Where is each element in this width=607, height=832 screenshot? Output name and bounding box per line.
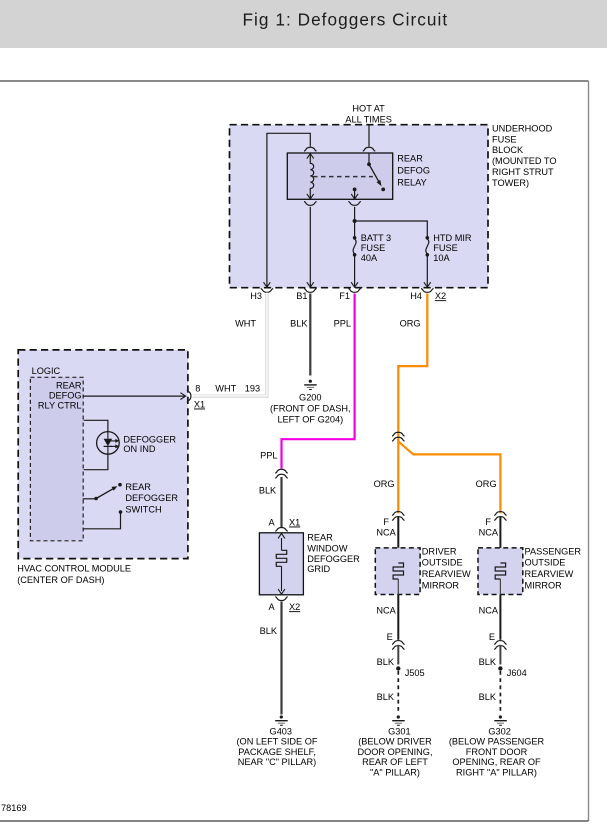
svg-text:G200: G200 xyxy=(299,393,321,403)
driver mirror box xyxy=(375,548,420,595)
label F NCA driver xyxy=(376,517,396,538)
svg-text:NCA: NCA xyxy=(479,606,499,616)
arrow into grid xyxy=(278,533,285,538)
svg-text:F: F xyxy=(383,517,389,527)
svg-text:H3: H3 xyxy=(250,291,262,301)
label DEFOGGER ON IND xyxy=(123,434,176,454)
svg-text:B1: B1 xyxy=(296,291,307,301)
inline connector F passenger xyxy=(494,512,507,521)
svg-text:F1: F1 xyxy=(339,291,350,301)
connector arc above relay coil xyxy=(304,147,317,151)
label REAR DEFOG RLY CTRL xyxy=(38,380,82,410)
relay common arrow bottom xyxy=(351,194,358,199)
svg-text:RIGHT STRUT: RIGHT STRUT xyxy=(492,167,554,177)
svg-text:FRONT DOOR: FRONT DOOR xyxy=(466,747,528,757)
arrow out of grid xyxy=(278,589,285,594)
wire below passenger mirror xyxy=(499,579,501,595)
connector cup below relay coil xyxy=(304,202,317,206)
frame top border xyxy=(0,80,589,82)
svg-text:H4: H4 xyxy=(410,291,422,301)
junction dot F1 branch xyxy=(353,219,357,223)
svg-text:(CENTER OF DASH): (CENTER OF DASH) xyxy=(17,575,104,585)
label F NCA passenger xyxy=(479,517,499,538)
svg-text:A: A xyxy=(268,602,275,612)
svg-text:SWITCH: SWITCH xyxy=(125,505,161,515)
inline connector F driver xyxy=(392,512,405,521)
svg-text:Fig 1: Defoggers Circuit: Fig 1: Defoggers Circuit xyxy=(243,9,449,29)
ground G403 xyxy=(275,715,288,725)
svg-text:WINDOW: WINDOW xyxy=(307,543,348,553)
wire branch to HTD MIR fuse xyxy=(355,221,428,236)
svg-text:RIGHT "A" PILLAR): RIGHT "A" PILLAR) xyxy=(456,768,537,778)
relay switch contact dot xyxy=(381,188,385,192)
svg-text:X2: X2 xyxy=(289,602,300,612)
connector arc above relay switch xyxy=(363,147,376,151)
svg-text:F: F xyxy=(485,517,491,527)
relay common terminal dot xyxy=(353,188,357,192)
wire B1 inside fuse block xyxy=(309,207,311,284)
svg-text:ALL TIMES: ALL TIMES xyxy=(345,115,391,125)
label A X2 xyxy=(268,602,300,612)
wire into driver mirror xyxy=(397,516,399,548)
svg-text:HVAC CONTROL MODULE: HVAC CONTROL MODULE xyxy=(17,564,131,574)
svg-text:G302: G302 xyxy=(488,726,510,736)
svg-text:G403: G403 xyxy=(270,726,292,736)
svg-text:OPENING, REAR OF: OPENING, REAR OF xyxy=(452,757,541,767)
label HOT AT ALL TIMES xyxy=(345,103,391,124)
label REAR WINDOW DEFOGGER GRID xyxy=(307,533,360,575)
svg-text:NCA: NCA xyxy=(376,527,396,537)
svg-text:193: 193 xyxy=(245,384,260,394)
svg-text:DOOR OPENING,: DOOR OPENING, xyxy=(357,747,432,757)
connector arc at module edge xyxy=(187,390,191,403)
relay switch line from top xyxy=(368,154,370,165)
svg-text:REARVIEW: REARVIEW xyxy=(422,569,471,579)
label REAR DEFOG RELAY xyxy=(397,153,430,187)
svg-text:DEFOG: DEFOG xyxy=(397,166,430,176)
svg-text:REAR: REAR xyxy=(125,482,151,492)
connector cup below grid xyxy=(275,597,288,601)
wire BLK driver xyxy=(397,645,399,665)
svg-text:BLK: BLK xyxy=(479,692,497,702)
label REAR DEFOGGER SWITCH xyxy=(125,482,178,515)
svg-text:"A" PILLAR): "A" PILLAR) xyxy=(370,768,420,778)
svg-text:(BELOW DRIVER: (BELOW DRIVER xyxy=(358,737,432,747)
svg-text:(ON LEFT SIDE OF: (ON LEFT SIDE OF xyxy=(237,737,318,747)
svg-text:FUSE: FUSE xyxy=(492,134,517,144)
dashed BLK wire passenger xyxy=(499,671,501,714)
relay coil xyxy=(310,154,313,199)
svg-text:NCA: NCA xyxy=(479,527,499,537)
svg-text:DEFOGGER: DEFOGGER xyxy=(123,434,176,444)
label 8 WHT 193 X1 xyxy=(194,384,260,410)
wire WHT from H3 xyxy=(193,294,267,397)
junction J604 xyxy=(498,666,502,670)
svg-text:BLK: BLK xyxy=(377,692,395,702)
label HTD MIR FUSE 10A xyxy=(433,233,472,263)
label G200 xyxy=(270,393,350,425)
svg-text:REAR: REAR xyxy=(307,533,333,543)
wire BLK passenger xyxy=(499,645,501,665)
svg-text:DEFOGGER: DEFOGGER xyxy=(307,554,360,564)
svg-text:BLK: BLK xyxy=(259,485,277,495)
svg-text:ORG: ORG xyxy=(374,479,395,489)
terminal labels xyxy=(250,291,446,301)
driver mirror grid element xyxy=(393,563,403,579)
svg-text:LEFT OF G204): LEFT OF G204) xyxy=(277,414,343,424)
label G301 xyxy=(357,726,432,777)
label A X1 xyxy=(268,518,300,528)
svg-text:8: 8 xyxy=(195,384,200,394)
svg-text:J604: J604 xyxy=(507,668,527,678)
svg-text:10A: 10A xyxy=(433,253,450,263)
svg-text:WHT: WHT xyxy=(235,318,256,328)
underhood fuse block box xyxy=(230,125,489,288)
wire ORG splice branches xyxy=(397,439,399,513)
frame bottom border xyxy=(0,820,589,822)
inline connector E passenger xyxy=(494,641,507,650)
wire below HTDMIR fuse xyxy=(426,257,428,285)
svg-text:A: A xyxy=(268,518,275,528)
label PASSENGER OUTSIDE REARVIEW MIRROR xyxy=(525,546,582,590)
svg-text:DEFOG: DEFOG xyxy=(49,390,82,400)
wire below driver mirror xyxy=(397,579,399,595)
svg-text:HTD MIR: HTD MIR xyxy=(433,233,472,243)
svg-text:(MOUNTED TO: (MOUNTED TO xyxy=(492,156,556,166)
svg-text:X1: X1 xyxy=(194,400,205,410)
label G403 xyxy=(237,726,318,767)
svg-text:TOWER): TOWER) xyxy=(492,178,529,188)
wire below BATT3 fuse xyxy=(354,257,356,285)
svg-text:MIRROR: MIRROR xyxy=(525,580,563,590)
ORG splice connector xyxy=(392,432,405,441)
rear window defogger grid box xyxy=(259,533,303,595)
svg-text:RELAY: RELAY xyxy=(397,178,426,188)
ground G200 xyxy=(304,380,317,390)
inline connector PPL-BLK xyxy=(275,469,288,478)
svg-text:BLK: BLK xyxy=(377,657,395,667)
svg-text:(FRONT OF DASH,: (FRONT OF DASH, xyxy=(270,404,350,414)
svg-text:NCA: NCA xyxy=(376,606,396,616)
ground G302 xyxy=(494,715,507,725)
svg-text:E: E xyxy=(387,632,393,642)
svg-text:UNDERHOOD: UNDERHOOD xyxy=(492,123,553,133)
svg-text:BLOCK: BLOCK xyxy=(492,145,524,155)
label HVAC CONTROL MODULE xyxy=(17,564,131,585)
wire hot feed to relay switch xyxy=(368,125,370,147)
svg-text:HOT AT: HOT AT xyxy=(352,103,385,113)
relay coil terminal arrow bottom xyxy=(307,194,314,199)
svg-text:E: E xyxy=(489,632,495,642)
svg-text:NEAR "C" PILLAR): NEAR "C" PILLAR) xyxy=(238,757,317,767)
svg-text:40A: 40A xyxy=(361,253,378,263)
label G302 xyxy=(449,726,545,777)
svg-text:MIRROR: MIRROR xyxy=(422,580,460,590)
passenger mirror grid element xyxy=(495,563,505,579)
relay actuator dashed link xyxy=(313,176,373,178)
relay U1 box xyxy=(287,153,392,199)
passenger mirror box xyxy=(478,548,523,595)
relay switch pivot dot xyxy=(367,162,371,166)
svg-text:BLK: BLK xyxy=(479,657,497,667)
svg-text:REARVIEW: REARVIEW xyxy=(525,569,574,579)
svg-text:DEFOGGER: DEFOGGER xyxy=(125,493,178,503)
svg-text:REAR: REAR xyxy=(397,153,423,163)
svg-text:PASSENGER: PASSENGER xyxy=(525,546,582,556)
svg-text:RLY CTRL: RLY CTRL xyxy=(38,400,82,410)
relay switch arm with arrowhead xyxy=(369,164,379,182)
svg-text:G301: G301 xyxy=(388,726,410,736)
svg-text:ORG: ORG xyxy=(476,479,497,489)
svg-text:WHT: WHT xyxy=(215,384,236,394)
label DRIVER OUTSIDE REARVIEW MIRROR xyxy=(422,546,471,590)
wire F1 inside fuse block xyxy=(354,207,356,236)
ground G301 xyxy=(392,715,405,725)
svg-text:DRIVER: DRIVER xyxy=(422,546,457,556)
label BATT 3 FUSE 40A xyxy=(361,233,391,263)
wire BLK to grid xyxy=(280,477,282,528)
svg-text:X1: X1 xyxy=(289,518,300,528)
svg-text:PPL: PPL xyxy=(260,450,277,460)
svg-text:REAR: REAR xyxy=(56,380,82,390)
rear defogger switch xyxy=(83,483,122,529)
wire PPL from F1 xyxy=(282,294,355,469)
svg-text:BLK: BLK xyxy=(290,318,308,328)
svg-text:GRID: GRID xyxy=(307,564,330,574)
relay common wire down xyxy=(354,189,356,198)
connector arc at grid entry xyxy=(275,527,288,531)
svg-text:J505: J505 xyxy=(405,668,425,678)
svg-text:ORG: ORG xyxy=(400,318,421,328)
svg-text:PACKAGE SHELF,: PACKAGE SHELF, xyxy=(238,747,315,757)
svg-text:OUTSIDE: OUTSIDE xyxy=(422,558,463,568)
svg-text:BATT 3: BATT 3 xyxy=(361,233,391,243)
svg-text:78169: 78169 xyxy=(1,803,27,813)
wire BLK to G403 xyxy=(280,602,282,715)
svg-text:REAR OF LEFT: REAR OF LEFT xyxy=(362,757,428,767)
wire H3 branch horizontal xyxy=(267,133,310,284)
title banner xyxy=(0,0,607,48)
exit cups below fuse block xyxy=(261,289,274,293)
svg-text:OUTSIDE: OUTSIDE xyxy=(525,558,566,568)
arrow right at module edge xyxy=(180,393,185,400)
wire into passenger mirror xyxy=(499,516,501,548)
fuse BATT 3 40A xyxy=(353,236,357,257)
svg-text:FUSE: FUSE xyxy=(361,243,386,253)
logic inner box xyxy=(30,377,83,541)
svg-text:(BELOW PASSENGER: (BELOW PASSENGER xyxy=(449,737,545,747)
wire BLK from B1 xyxy=(309,294,311,376)
wire ORG from H4 xyxy=(398,294,427,442)
HVAC control module box xyxy=(18,350,188,559)
exit arrows at fuse block bottom xyxy=(264,282,271,287)
svg-text:ON IND: ON IND xyxy=(123,444,156,454)
label UNDERHOOD FUSE BLOCK xyxy=(492,123,556,188)
svg-text:X2: X2 xyxy=(435,291,446,301)
dashed BLK wire driver xyxy=(397,671,399,714)
wire rly ctrl output xyxy=(83,395,184,397)
fuse HTD MIR 10A xyxy=(426,236,430,257)
frame right border xyxy=(588,81,590,821)
svg-text:FUSE: FUSE xyxy=(433,243,458,253)
junction J505 xyxy=(396,666,400,670)
relay coil terminal arrow top xyxy=(307,154,314,159)
LED defogger on indicator xyxy=(84,420,120,469)
svg-text:LOGIC: LOGIC xyxy=(32,366,61,376)
svg-text:PPL: PPL xyxy=(334,318,351,328)
inline connector E driver xyxy=(392,641,405,650)
connector cup below relay common xyxy=(348,202,361,206)
svg-text:BLK: BLK xyxy=(260,626,278,636)
grid element xyxy=(281,538,283,550)
